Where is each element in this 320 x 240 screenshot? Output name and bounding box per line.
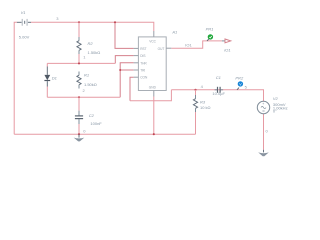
diode D1: [44, 63, 57, 97]
ground right: [263, 150, 265, 153]
svg-text:5.00V: 5.00V: [19, 35, 30, 40]
resistor R2: [77, 22, 100, 63]
junction rail-R2: [78, 21, 80, 23]
svg-text:V2: V2: [273, 96, 279, 101]
svg-text:C2: C2: [89, 113, 95, 118]
svg-text:0°: 0°: [273, 109, 277, 114]
wire TRI stub link: [120, 69, 133, 71]
wire RST to VCC rail: [115, 22, 134, 48]
svg-text:100nF: 100nF: [90, 121, 102, 126]
resistor R1: [77, 72, 97, 89]
svg-text:RST: RST: [140, 47, 146, 51]
svg-text:D1: D1: [52, 76, 57, 81]
svg-text:R2: R2: [88, 41, 94, 46]
svg-text:1.50kΩ: 1.50kΩ: [84, 82, 97, 87]
junction C2 bottom rail: [78, 133, 80, 135]
wire DIS to node 1: [115, 56, 133, 64]
capacitor C1: [212, 75, 225, 96]
wire OUT to IO1: [171, 41, 222, 48]
svg-text:THR: THR: [140, 61, 147, 65]
svg-text:IO1: IO1: [224, 47, 230, 52]
ac source V2: [257, 96, 287, 114]
svg-text:10 kΩ: 10 kΩ: [200, 105, 211, 110]
svg-text:GND: GND: [149, 86, 157, 90]
probe PR2: [235, 75, 244, 90]
resistor R3: [193, 90, 210, 134]
svg-text:R3: R3: [200, 100, 206, 105]
junction GND wire bottom rail: [153, 133, 155, 135]
wire top rail net 3: [31, 22, 154, 31]
IC A1 555 timer: [134, 30, 178, 97]
battery V1: [17, 10, 31, 40]
wire node 2 horizontal: [47, 96, 120, 98]
capacitor C2: [75, 97, 102, 134]
wire node 1 horizontal: [47, 62, 115, 64]
wire IC GND to bottom rail: [153, 97, 155, 135]
junction rail-RST: [114, 21, 116, 23]
svg-text:V1: V1: [21, 10, 26, 15]
svg-text:R1: R1: [84, 72, 89, 77]
wire V2 bottom to ground: [263, 114, 265, 150]
IO connector IO1 arrow: [222, 39, 231, 52]
wire CON drop: [130, 77, 134, 101]
svg-text:10.0μF: 10.0μF: [212, 91, 225, 96]
svg-text:CON: CON: [140, 76, 148, 80]
wire node 4 horizontal to V2: [171, 90, 263, 102]
junction node 4: [194, 89, 196, 91]
wire left column from battery to bottom rail: [14, 22, 17, 134]
svg-text:VCC: VCC: [149, 39, 156, 43]
wire CON row to node 4 riser: [130, 90, 171, 101]
svg-text:1.50kΩ: 1.50kΩ: [88, 50, 101, 55]
svg-text:PR1: PR1: [206, 27, 214, 32]
junction TRI tie: [119, 69, 121, 71]
wire THR TRI to node 2: [120, 63, 133, 98]
svg-text:DIS: DIS: [140, 54, 145, 58]
svg-text:TRI: TRI: [140, 69, 145, 73]
wire bottom rail net 0: [14, 133, 195, 135]
ground left: [74, 134, 85, 141]
svg-text:OUT: OUT: [158, 47, 165, 51]
svg-text:IO1: IO1: [185, 42, 192, 47]
probe PR1: [206, 27, 214, 41]
svg-text:C1: C1: [216, 75, 221, 80]
svg-text:PR2: PR2: [235, 75, 244, 80]
svg-text:A1: A1: [171, 30, 177, 35]
